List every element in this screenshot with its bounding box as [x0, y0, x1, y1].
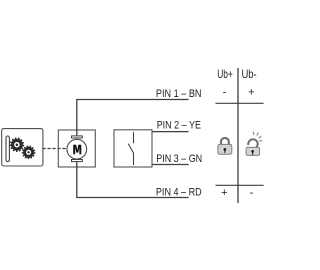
padlock closed (locked icon): [218, 138, 232, 154]
svg-text:-: -: [223, 87, 227, 99]
svg-text:+: +: [221, 187, 228, 199]
svg-text:Ub-: Ub-: [242, 67, 257, 81]
svg-text:PIN 3 – GN: PIN 3 – GN: [156, 153, 202, 165]
wire PIN 1 (motor top to label): [77, 100, 189, 131]
svg-text:PIN 1 – BN: PIN 1 – BN: [156, 88, 202, 100]
padlock open (unlocked icon): [246, 139, 260, 155]
table horizontal rule bottom: [216, 184, 264, 186]
motor brush bottom: [72, 160, 83, 162]
svg-text:-: -: [250, 187, 254, 199]
switch contact top lead: [133, 132, 135, 143]
unlock sparkle rays: [253, 132, 262, 141]
motor box: [58, 130, 95, 167]
switch box S1: [114, 130, 152, 167]
gearbox G1 (drive unit box): [2, 129, 43, 166]
motor lead bottom stub: [76, 162, 78, 168]
motor label M: [73, 145, 81, 155]
svg-text:PIN 4 – RD: PIN 4 – RD: [156, 187, 202, 199]
switch contact bottom lead: [133, 153, 135, 165]
dashed coupling line gearbox to motor: [42, 148, 68, 150]
gear 2: [23, 146, 35, 158]
table vertical divider: [237, 68, 239, 203]
wire PIN 2 (switch to label): [152, 131, 189, 133]
gearbox flange bar: [6, 136, 9, 162]
svg-text:PIN 2 – YE: PIN 2 – YE: [157, 119, 201, 131]
motor brush top: [72, 136, 83, 138]
table horizontal rule top: [216, 102, 264, 104]
gear 1: [11, 138, 24, 151]
motor lead top stub: [76, 130, 78, 136]
motor circle M1: [67, 139, 87, 159]
wire PIN 4 (motor bottom to label): [77, 167, 189, 198]
svg-text:Ub+: Ub+: [217, 67, 233, 81]
svg-text:+: +: [248, 87, 255, 99]
switch blade: [128, 144, 133, 153]
wire PIN 3 (switch to label): [152, 164, 189, 166]
